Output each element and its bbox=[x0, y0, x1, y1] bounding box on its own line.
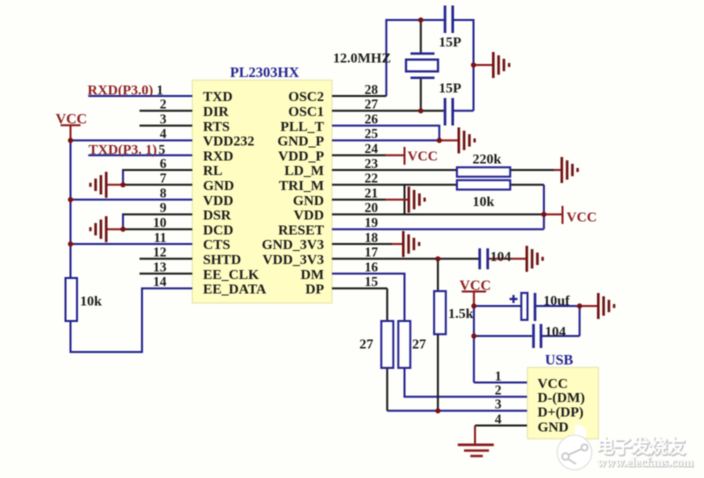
svg-text:15: 15 bbox=[365, 274, 379, 289]
svg-text:VCC: VCC bbox=[567, 211, 597, 226]
svg-text:TXD: TXD bbox=[203, 90, 233, 105]
svg-text:SHTD: SHTD bbox=[203, 253, 241, 268]
svg-text:1: 1 bbox=[495, 368, 502, 383]
svg-text:2: 2 bbox=[495, 383, 502, 398]
svg-text:15P: 15P bbox=[439, 36, 462, 51]
svg-text:VDD_P: VDD_P bbox=[278, 149, 324, 164]
svg-text:VDD_3V3: VDD_3V3 bbox=[263, 253, 324, 268]
svg-text:VDD: VDD bbox=[203, 194, 233, 209]
svg-text:21: 21 bbox=[365, 185, 379, 200]
svg-text:2: 2 bbox=[160, 97, 167, 112]
svg-text:220k: 220k bbox=[473, 153, 502, 168]
svg-text:GND: GND bbox=[538, 421, 569, 436]
svg-text:12: 12 bbox=[153, 245, 167, 260]
svg-text:1: 1 bbox=[157, 83, 164, 98]
svg-text:17: 17 bbox=[365, 245, 379, 260]
svg-text:VCC: VCC bbox=[56, 112, 87, 128]
svg-text:10k: 10k bbox=[80, 295, 102, 310]
svg-text:D+(DP): D+(DP) bbox=[538, 405, 584, 420]
svg-text:VDD232: VDD232 bbox=[203, 135, 254, 150]
svg-text:10uf: 10uf bbox=[543, 294, 570, 309]
svg-text:DP: DP bbox=[305, 283, 324, 298]
svg-text:RESET: RESET bbox=[278, 223, 325, 238]
svg-text:4: 4 bbox=[160, 126, 167, 141]
svg-text:27: 27 bbox=[359, 337, 373, 352]
svg-text:18: 18 bbox=[365, 230, 379, 245]
svg-text:GND_P: GND_P bbox=[277, 135, 324, 150]
svg-text:4: 4 bbox=[495, 411, 502, 426]
svg-text:1.5k: 1.5k bbox=[448, 307, 474, 322]
svg-text:9: 9 bbox=[160, 200, 167, 215]
svg-text:8: 8 bbox=[160, 185, 167, 200]
svg-text:10: 10 bbox=[153, 215, 167, 230]
svg-text:RTS: RTS bbox=[203, 120, 230, 135]
svg-text:OSC2: OSC2 bbox=[288, 90, 324, 105]
svg-text:20: 20 bbox=[365, 200, 379, 215]
svg-text:27: 27 bbox=[412, 337, 426, 352]
svg-text:11: 11 bbox=[154, 230, 167, 245]
svg-text:VDD: VDD bbox=[294, 209, 324, 224]
svg-text:GND: GND bbox=[203, 179, 234, 194]
svg-text:CTS: CTS bbox=[203, 238, 230, 253]
svg-text:25: 25 bbox=[365, 126, 379, 141]
svg-text:DM: DM bbox=[301, 268, 324, 283]
svg-text:RXD: RXD bbox=[203, 149, 233, 164]
svg-text:电子发烧友: 电子发烧友 bbox=[596, 436, 685, 457]
svg-text:GND: GND bbox=[293, 194, 324, 209]
svg-text:16: 16 bbox=[365, 259, 379, 274]
svg-text:3: 3 bbox=[495, 397, 502, 412]
svg-text:15P: 15P bbox=[439, 82, 462, 97]
svg-text:VCC: VCC bbox=[460, 278, 491, 294]
svg-text:DIR: DIR bbox=[203, 105, 230, 120]
svg-text:5: 5 bbox=[159, 142, 166, 157]
svg-text:24: 24 bbox=[365, 141, 379, 156]
svg-text:www.elecfans.com: www.elecfans.com bbox=[597, 455, 694, 469]
svg-text:DCD: DCD bbox=[203, 223, 233, 238]
svg-text:22: 22 bbox=[365, 171, 379, 186]
svg-text:LD_M: LD_M bbox=[284, 164, 324, 179]
svg-text:PL2303HX: PL2303HX bbox=[230, 65, 300, 81]
svg-text:RL: RL bbox=[203, 164, 222, 179]
svg-text:3: 3 bbox=[160, 111, 167, 126]
svg-text:7: 7 bbox=[160, 171, 167, 186]
svg-text:28: 28 bbox=[365, 82, 379, 97]
svg-text:GND_3V3: GND_3V3 bbox=[262, 238, 324, 253]
svg-text:13: 13 bbox=[153, 259, 167, 274]
svg-text:TRI_M: TRI_M bbox=[279, 179, 324, 194]
svg-text:OSC1: OSC1 bbox=[288, 105, 324, 120]
svg-text:RXD(P3.0): RXD(P3.0) bbox=[88, 84, 154, 99]
svg-text:EE_DATA: EE_DATA bbox=[203, 283, 267, 298]
svg-text:DSR: DSR bbox=[203, 209, 232, 224]
svg-text:19: 19 bbox=[365, 215, 379, 230]
svg-text:12.0MHZ: 12.0MHZ bbox=[333, 52, 391, 67]
svg-text:14: 14 bbox=[153, 274, 167, 289]
svg-text:VCC: VCC bbox=[538, 377, 568, 392]
svg-text:TXD(P3. 1): TXD(P3. 1) bbox=[89, 143, 158, 158]
svg-text:104: 104 bbox=[490, 250, 511, 265]
svg-text:EE_CLK: EE_CLK bbox=[203, 268, 259, 283]
svg-text:6: 6 bbox=[160, 156, 167, 171]
svg-text:D-(DM): D-(DM) bbox=[538, 391, 586, 406]
svg-text:PLL_T: PLL_T bbox=[280, 120, 324, 135]
svg-text:VCC: VCC bbox=[408, 150, 438, 165]
svg-text:27: 27 bbox=[365, 97, 379, 112]
svg-text:23: 23 bbox=[365, 156, 379, 171]
svg-text:26: 26 bbox=[365, 111, 379, 126]
svg-text:104: 104 bbox=[545, 325, 566, 340]
svg-text:USB: USB bbox=[545, 353, 574, 369]
svg-text:10k: 10k bbox=[473, 195, 495, 210]
